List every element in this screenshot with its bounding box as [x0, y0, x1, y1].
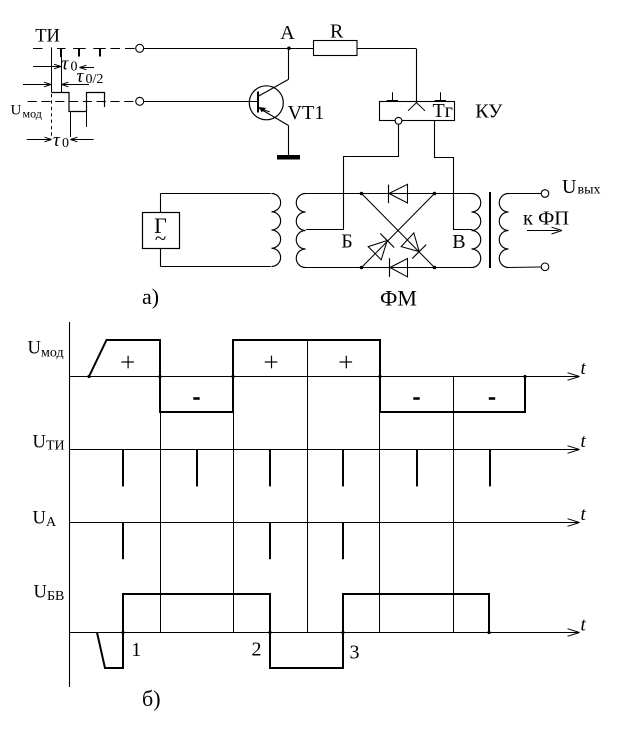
svg-text:τ: τ — [53, 130, 61, 151]
svg-text:U: U — [11, 103, 22, 119]
svg-text:вых: вых — [578, 183, 601, 198]
svg-text:мод: мод — [23, 107, 42, 121]
svg-text:1: 1 — [131, 639, 141, 661]
svg-text:ФМ: ФМ — [380, 286, 417, 311]
svg-text:ТИ: ТИ — [46, 439, 65, 454]
svg-text:U: U — [28, 339, 41, 359]
svg-text:А: А — [46, 515, 57, 530]
svg-text:t: t — [581, 431, 587, 452]
svg-text:R: R — [330, 20, 344, 42]
svg-text:а): а) — [142, 284, 159, 309]
svg-text:τ: τ — [62, 54, 70, 75]
svg-text:ТИ: ТИ — [35, 27, 60, 47]
svg-text:мод: мод — [41, 346, 64, 361]
svg-text:к ФП: к ФП — [523, 208, 569, 230]
svg-text:3: 3 — [350, 642, 360, 664]
svg-text:t: t — [581, 358, 587, 379]
svg-text:В: В — [452, 231, 465, 253]
svg-text:Тг: Тг — [433, 100, 453, 122]
svg-text:2: 2 — [252, 639, 262, 661]
svg-text:t: t — [581, 504, 587, 525]
svg-text:U: U — [33, 509, 46, 529]
svg-text:U: U — [562, 176, 577, 198]
svg-text:б): б) — [142, 686, 161, 711]
svg-text:U: U — [34, 583, 47, 603]
svg-text:A: A — [280, 22, 295, 44]
svg-text:U: U — [33, 433, 46, 453]
svg-text:VT1: VT1 — [288, 102, 325, 124]
svg-text:Б: Б — [341, 231, 352, 253]
svg-text:τ: τ — [77, 66, 85, 87]
svg-text:КУ: КУ — [475, 100, 503, 122]
svg-text:t: t — [581, 614, 587, 635]
svg-text:~: ~ — [155, 226, 166, 250]
svg-text:0: 0 — [62, 136, 69, 151]
svg-text:БВ: БВ — [47, 589, 64, 604]
svg-text:0/2: 0/2 — [86, 72, 104, 87]
